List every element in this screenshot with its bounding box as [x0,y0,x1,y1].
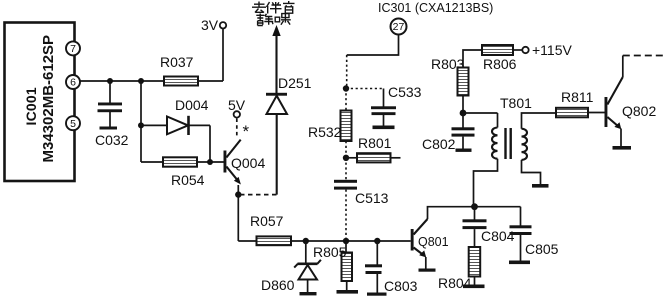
svg-text:R037: R037 [160,54,194,70]
svg-text:6: 6 [70,77,76,89]
svg-text:D860: D860 [261,277,295,293]
svg-text:IC301 (CXA1213BS): IC301 (CXA1213BS) [378,1,493,15]
svg-text:D251: D251 [278,75,312,91]
svg-text:C803: C803 [384,278,418,294]
svg-text:IC001: IC001 [23,87,39,125]
svg-text:+115V: +115V [532,42,572,58]
svg-text:T801: T801 [500,95,532,111]
svg-text:R806: R806 [483,56,517,72]
svg-text:Q801: Q801 [418,235,449,249]
svg-text:R532: R532 [308,124,342,140]
svg-text:R801: R801 [358,135,392,151]
svg-text:C513: C513 [355,190,389,206]
svg-text:*: * [243,122,250,141]
svg-text:R057: R057 [250,213,284,229]
svg-text:M34302MB-612SP: M34302MB-612SP [40,35,57,163]
svg-text:Q802: Q802 [622,103,656,119]
svg-text:Q004: Q004 [231,155,265,171]
svg-text:R804: R804 [438,275,472,291]
svg-text:R811: R811 [561,89,594,105]
svg-text:C533: C533 [388,84,422,100]
svg-text:R054: R054 [171,172,205,188]
svg-text:C804: C804 [481,228,515,244]
svg-text:27: 27 [393,21,405,33]
svg-text:7: 7 [70,43,76,55]
svg-text:C805: C805 [525,241,559,257]
svg-text:3V: 3V [201,17,219,33]
svg-text:D004: D004 [175,97,209,113]
svg-text:C802: C802 [422,136,456,152]
svg-text:C032: C032 [95,132,129,148]
svg-text:R805: R805 [313,244,347,260]
svg-text:5: 5 [70,118,76,130]
